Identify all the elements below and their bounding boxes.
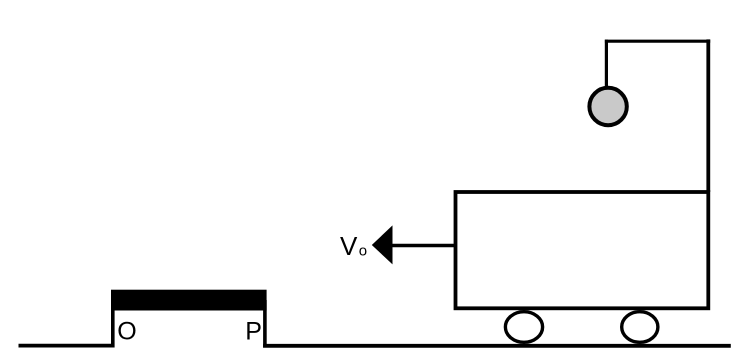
frame vertical member (706, 39, 710, 192)
svg-text:V: V (340, 231, 358, 261)
platform top black bar (111, 290, 267, 311)
wheel 1 (505, 312, 542, 343)
platform left wall (111, 300, 115, 348)
wheel 2 (622, 312, 658, 343)
svg-text:O: O (117, 317, 136, 345)
ground right segment (263, 344, 731, 348)
platform right wall (263, 300, 267, 348)
pendulum string (605, 40, 608, 90)
ground left segment (19, 344, 115, 348)
pendulum bob (589, 88, 626, 125)
velocity line (391, 244, 457, 247)
cart body (456, 192, 709, 308)
svg-text:P: P (245, 317, 262, 345)
velocity arrowhead (372, 225, 393, 264)
svg-text:o: o (359, 243, 367, 260)
frame horizontal member (605, 40, 710, 43)
